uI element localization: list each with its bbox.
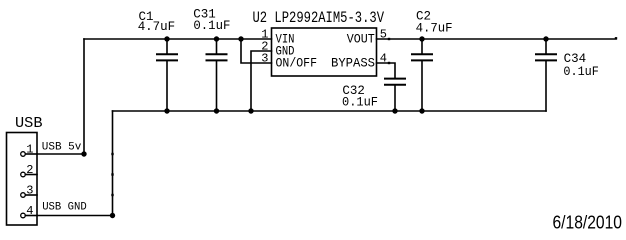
node junction USB GND corner	[110, 213, 115, 218]
svg-text:1: 1	[26, 142, 33, 156]
wire C34 bottom to ground rail	[545, 60, 547, 111]
wire USB pin4 to GND	[37, 215, 113, 217]
node junction U2 GND bottom	[248, 108, 253, 113]
svg-text:4: 4	[380, 51, 387, 65]
connector J1 USB body	[7, 133, 38, 226]
node vertex GND wire 1	[111, 153, 113, 155]
node vertex VOUT wire	[388, 38, 390, 40]
node junction C2 top	[419, 36, 424, 41]
wire top rail right (VOUT net)	[377, 38, 617, 40]
svg-text:U2 LP2992AIM5-3.3V: U2 LP2992AIM5-3.3V	[253, 9, 385, 27]
wire ON/OFF to VIN rail	[241, 39, 272, 63]
node vertex GND wire 2	[111, 173, 113, 175]
node junction C32 bottom	[392, 108, 397, 113]
node junction C1 top	[164, 36, 169, 41]
node junction C31 bottom	[214, 108, 219, 113]
USB pin 2 stub	[25, 174, 37, 176]
svg-text:2: 2	[26, 163, 33, 177]
USB pin 3 stub	[25, 194, 37, 196]
node vertex BYPASS wire	[388, 62, 390, 64]
wire GND pin U2 to ground rail	[251, 51, 272, 111]
wire USB 5v vertical	[83, 39, 85, 154]
wire ground rail	[113, 110, 547, 112]
capacitor C1	[157, 39, 177, 111]
USB pin 1 stub	[25, 153, 37, 155]
op-amp U2 regulator body	[272, 28, 377, 76]
svg-text:USB: USB	[15, 116, 43, 132]
wire USB GND vertical	[112, 111, 114, 216]
node junction C31 top	[214, 36, 219, 41]
svg-text:3: 3	[26, 183, 33, 197]
USB pin 4 stub	[25, 215, 37, 217]
node junction 5v corner	[81, 151, 86, 156]
capacitor C2	[412, 39, 432, 111]
svg-text:4.7uF: 4.7uF	[416, 21, 453, 35]
wire BYPASS to C32	[377, 63, 396, 79]
svg-text:USB 5v: USB 5v	[42, 142, 82, 154]
node junction C2 bottom	[419, 108, 424, 113]
svg-text:6/18/2010: 6/18/2010	[553, 213, 623, 231]
svg-text:VOUT: VOUT	[347, 31, 375, 46]
svg-text:4.7uF: 4.7uF	[138, 20, 176, 34]
capacitor C34	[536, 39, 556, 60]
svg-text:0.1uF: 0.1uF	[342, 96, 378, 110]
svg-text:USB GND: USB GND	[42, 201, 87, 213]
svg-text:BYPASS: BYPASS	[331, 56, 375, 71]
wire USB pin1 to 5V	[37, 153, 84, 155]
svg-text:5: 5	[380, 28, 387, 42]
node vertex GND wire 3	[111, 194, 113, 196]
svg-text:3: 3	[261, 52, 268, 66]
svg-text:ON/OFF: ON/OFF	[276, 56, 318, 71]
USB pin 2 circle	[21, 172, 26, 177]
USB pin 1 circle	[21, 152, 26, 157]
svg-text:4: 4	[26, 204, 33, 218]
svg-text:0.1uF: 0.1uF	[563, 65, 599, 79]
capacitor C31	[207, 39, 227, 111]
node junction C34 top	[543, 36, 548, 41]
USB pin 4 circle	[21, 213, 26, 218]
capacitor C32	[385, 79, 405, 111]
node junction C1 bottom	[164, 108, 169, 113]
node vertex rail end	[615, 37, 617, 39]
node junction ON/OFF tap	[238, 36, 243, 41]
svg-text:0.1uF: 0.1uF	[193, 19, 230, 33]
wire top rail left (5V net)	[84, 38, 272, 40]
USB pin 3 circle	[21, 193, 26, 198]
